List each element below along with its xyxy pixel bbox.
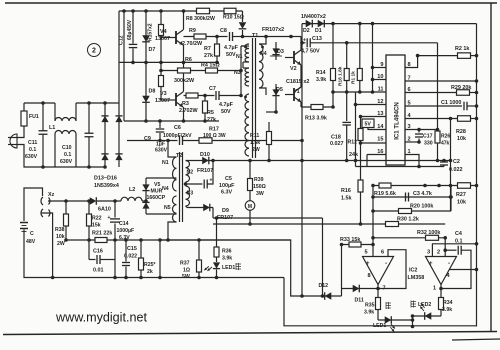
svg-text:R2 1k: R2 1k xyxy=(455,46,469,52)
svg-text:C2: C2 xyxy=(453,159,460,165)
svg-text:N1: N1 xyxy=(162,160,169,166)
svg-text:24k: 24k xyxy=(349,152,358,158)
svg-text:0.1: 0.1 xyxy=(29,147,36,153)
svg-text:C13: C13 xyxy=(312,36,322,42)
svg-text:R3: R3 xyxy=(182,101,189,107)
svg-text:R8 300k/2W: R8 300k/2W xyxy=(186,16,215,22)
svg-text:R22: R22 xyxy=(92,216,102,222)
svg-text:M: M xyxy=(248,204,252,210)
svg-text:0.022: 0.022 xyxy=(124,254,137,260)
svg-text:3.9k: 3.9k xyxy=(316,77,326,83)
svg-text:C1 1000: C1 1000 xyxy=(441,100,461,106)
svg-text:5: 5 xyxy=(408,101,411,107)
svg-text:7: 7 xyxy=(383,286,386,292)
svg-text:7: 7 xyxy=(408,76,411,82)
svg-text:N3: N3 xyxy=(234,70,241,76)
svg-text:D5: D5 xyxy=(276,87,283,93)
svg-text:R34: R34 xyxy=(443,300,453,306)
svg-text:5W: 5W xyxy=(182,274,190,280)
svg-text:C10: C10 xyxy=(62,145,72,151)
svg-text:1660CP: 1660CP xyxy=(147,195,166,201)
svg-text:-: - xyxy=(385,260,387,267)
svg-text:1Ω: 1Ω xyxy=(183,268,190,274)
svg-text:R19 5.6k: R19 5.6k xyxy=(374,191,396,197)
svg-text:R25*: R25* xyxy=(144,262,157,268)
svg-text:2k: 2k xyxy=(147,269,153,275)
svg-text:R21 22k: R21 22k xyxy=(92,231,112,237)
svg-text:C15: C15 xyxy=(127,246,137,252)
svg-text:+: + xyxy=(210,178,213,184)
svg-text:V3: V3 xyxy=(160,91,167,97)
svg-text:1000pF/2kV: 1000pF/2kV xyxy=(163,133,192,139)
svg-text:12: 12 xyxy=(377,99,383,105)
svg-text:50V: 50V xyxy=(221,109,231,115)
svg-text:2: 2 xyxy=(408,137,411,143)
svg-text:1N5399x4: 1N5399x4 xyxy=(94,183,119,189)
svg-text:6.3V: 6.3V xyxy=(119,235,130,241)
svg-text:0.1: 0.1 xyxy=(455,239,463,245)
svg-text:630V: 630V xyxy=(155,148,168,154)
svg-text:1: 1 xyxy=(433,286,436,292)
svg-text:100 Ω 3W: 100 Ω 3W xyxy=(203,133,226,139)
svg-text:1000µF: 1000µF xyxy=(117,228,135,234)
svg-text:2.702W: 2.702W xyxy=(179,108,198,114)
svg-text:0.027: 0.027 xyxy=(330,141,344,147)
svg-text:C11: C11 xyxy=(28,140,37,146)
svg-text:9: 9 xyxy=(380,62,383,68)
svg-text:0.022: 0.022 xyxy=(449,167,463,173)
svg-text:5V: 5V xyxy=(365,122,372,128)
svg-text:T1: T1 xyxy=(252,33,258,39)
svg-text:D3: D3 xyxy=(277,49,284,55)
svg-text:3W: 3W xyxy=(256,191,264,197)
svg-text:C17: C17 xyxy=(423,134,433,140)
svg-text:15k: 15k xyxy=(92,223,101,229)
svg-text:3.9k: 3.9k xyxy=(442,307,452,313)
svg-text:R4 15Ω: R4 15Ω xyxy=(201,63,220,69)
svg-text:R12: R12 xyxy=(348,140,358,146)
svg-text:LED2: LED2 xyxy=(418,302,431,308)
svg-text:R13 3.9k: R13 3.9k xyxy=(305,116,327,122)
svg-text:150Ω: 150Ω xyxy=(253,184,266,190)
svg-text:630V: 630V xyxy=(25,154,38,160)
svg-text:R14: R14 xyxy=(316,70,326,76)
svg-text:T2: T2 xyxy=(176,153,182,159)
svg-text:6: 6 xyxy=(408,87,411,93)
svg-text:D13~D16: D13~D16 xyxy=(94,176,117,182)
svg-text:10k: 10k xyxy=(457,200,466,206)
svg-text:D2: D2 xyxy=(303,28,310,34)
svg-text:+: + xyxy=(429,261,433,267)
svg-text:10k: 10k xyxy=(56,234,65,240)
svg-text:6A10: 6A10 xyxy=(98,207,111,213)
svg-text:330: 330 xyxy=(424,141,433,147)
svg-text:C6: C6 xyxy=(174,125,181,131)
svg-text:3: 3 xyxy=(408,124,411,130)
svg-text:L1: L1 xyxy=(49,125,55,131)
svg-text:6: 6 xyxy=(381,250,384,256)
svg-text:R5: R5 xyxy=(207,110,214,116)
svg-text:FU1: FU1 xyxy=(29,114,39,120)
svg-text:IC2: IC2 xyxy=(409,268,417,274)
svg-text:MUR: MUR xyxy=(151,189,163,195)
svg-text:C1815 x2: C1815 x2 xyxy=(286,79,309,85)
svg-text:C12: C12 xyxy=(119,35,125,45)
svg-text:C4: C4 xyxy=(455,231,462,237)
svg-text:V4: V4 xyxy=(160,29,167,35)
svg-text:V5: V5 xyxy=(154,182,160,188)
svg-text:+: + xyxy=(108,215,111,221)
svg-text:16: 16 xyxy=(377,149,383,155)
svg-text:+: + xyxy=(366,261,370,267)
svg-text:R32 100k: R32 100k xyxy=(417,230,440,236)
svg-text:27k: 27k xyxy=(204,53,213,59)
svg-text:N2: N2 xyxy=(187,170,194,176)
svg-text:R10 15Ω: R10 15Ω xyxy=(223,15,244,21)
svg-text:R16: R16 xyxy=(341,188,351,194)
svg-text:R33 15k: R33 15k xyxy=(340,237,360,243)
svg-text:R18 1.8k: R18 1.8k xyxy=(338,66,344,86)
svg-text:R27: R27 xyxy=(456,192,466,198)
svg-text:47k: 47k xyxy=(441,141,450,147)
svg-text:D1: D1 xyxy=(315,28,322,34)
svg-text:11: 11 xyxy=(378,87,384,93)
svg-text:14: 14 xyxy=(377,124,384,130)
svg-text:-: - xyxy=(448,260,450,267)
svg-text:R26: R26 xyxy=(441,134,450,140)
svg-text:N4: N4 xyxy=(260,51,267,57)
svg-text:4.7µF: 4.7µF xyxy=(219,102,234,108)
svg-text:D9: D9 xyxy=(222,208,229,214)
svg-text:N3: N3 xyxy=(187,191,194,197)
svg-text:6.3V: 6.3V xyxy=(221,190,232,196)
svg-text:R17: R17 xyxy=(209,127,219,133)
svg-text:13: 13 xyxy=(377,111,383,117)
svg-text:N4: N4 xyxy=(162,186,169,192)
svg-text:1.5k: 1.5k xyxy=(341,196,352,202)
svg-text:FR107: FR107 xyxy=(217,215,233,221)
svg-text:3: 3 xyxy=(427,250,430,256)
svg-text:0.1: 0.1 xyxy=(64,152,71,158)
svg-text:N5: N5 xyxy=(164,205,171,211)
svg-text:R29 20k: R29 20k xyxy=(451,85,471,91)
svg-text:R39: R39 xyxy=(254,177,264,183)
svg-text:8: 8 xyxy=(368,273,371,279)
svg-text:C: C xyxy=(30,231,34,237)
svg-text:C3 4.7k: C3 4.7k xyxy=(413,191,432,197)
svg-text:2W: 2W xyxy=(57,241,65,247)
svg-text:R30 1.2k: R30 1.2k xyxy=(397,217,419,223)
svg-text:R11: R11 xyxy=(250,133,259,139)
svg-text:N1: N1 xyxy=(236,54,243,60)
svg-text:+: + xyxy=(303,38,306,44)
svg-text:C5: C5 xyxy=(225,176,232,182)
svg-text:D11: D11 xyxy=(355,298,364,304)
svg-text:C14: C14 xyxy=(119,221,129,227)
svg-text:300k2W: 300k2W xyxy=(174,78,195,84)
svg-text:68µ450V: 68µ450V xyxy=(127,19,133,40)
svg-text:LED1: LED1 xyxy=(373,323,386,329)
svg-text:D7: D7 xyxy=(149,47,156,53)
svg-text:FR107x2: FR107x2 xyxy=(262,27,284,33)
svg-text:D10: D10 xyxy=(200,152,210,158)
svg-text:R36: R36 xyxy=(222,249,232,255)
svg-text:4.7µF: 4.7µF xyxy=(224,45,239,51)
svg-text:8: 8 xyxy=(408,62,411,68)
svg-text:R157x2: R157x2 xyxy=(148,23,154,41)
svg-text:C16: C16 xyxy=(93,249,103,255)
svg-text:2: 2 xyxy=(437,250,440,256)
svg-text:LED1: LED1 xyxy=(222,265,235,271)
svg-text:27k: 27k xyxy=(207,117,216,123)
svg-text:IC1 TL494CN: IC1 TL494CN xyxy=(394,102,401,140)
svg-text:4,7 50V: 4,7 50V xyxy=(301,49,320,55)
svg-text:R9: R9 xyxy=(189,28,196,34)
svg-text:13007: 13007 xyxy=(155,36,170,42)
svg-text:48V: 48V xyxy=(26,239,36,245)
svg-text:10: 10 xyxy=(377,74,383,80)
svg-text:R1 1k: R1 1k xyxy=(351,71,357,84)
svg-text:R37: R37 xyxy=(180,261,190,267)
svg-text:15: 15 xyxy=(377,137,383,143)
svg-text:Xz: Xz xyxy=(48,192,55,198)
svg-text:5: 5 xyxy=(365,250,368,256)
svg-text:1: 1 xyxy=(408,149,411,155)
svg-text:50V: 50V xyxy=(226,52,236,58)
svg-text:R28: R28 xyxy=(456,129,466,135)
svg-text:C18: C18 xyxy=(331,135,341,141)
svg-text:LM358: LM358 xyxy=(408,275,425,281)
svg-text:100µF: 100µF xyxy=(219,183,235,189)
svg-text:1N4007x2: 1N4007x2 xyxy=(301,14,326,20)
svg-text:D8: D8 xyxy=(149,89,156,95)
svg-text:C7: C7 xyxy=(209,86,216,92)
svg-text:0.01: 0.01 xyxy=(93,268,104,274)
svg-text:C8: C8 xyxy=(220,28,227,34)
svg-text:C9: C9 xyxy=(144,136,151,142)
svg-text:10k: 10k xyxy=(457,136,466,142)
svg-text:2W: 2W xyxy=(252,147,260,153)
svg-text:R7: R7 xyxy=(204,46,211,52)
svg-text:R35: R35 xyxy=(365,303,375,309)
svg-text:V2: V2 xyxy=(290,66,297,72)
svg-text:R38: R38 xyxy=(55,227,65,233)
svg-text:630V: 630V xyxy=(60,159,73,165)
svg-text:www.mydigit.net: www.mydigit.net xyxy=(55,311,147,325)
svg-text:L2: L2 xyxy=(129,187,135,193)
svg-text:R6: R6 xyxy=(185,57,192,63)
svg-text:1.5k: 1.5k xyxy=(250,140,260,146)
svg-text:FR107: FR107 xyxy=(197,168,213,174)
svg-text:D12: D12 xyxy=(319,283,329,289)
svg-text:V1: V1 xyxy=(293,89,300,95)
svg-text:2.70/2W: 2.70/2W xyxy=(182,41,203,47)
svg-text:3.9k: 3.9k xyxy=(364,310,374,316)
svg-text:R20 100k: R20 100k xyxy=(410,204,433,210)
svg-text:2: 2 xyxy=(92,48,96,55)
svg-text:13007: 13007 xyxy=(155,98,170,104)
svg-text:3.9k: 3.9k xyxy=(222,256,232,262)
